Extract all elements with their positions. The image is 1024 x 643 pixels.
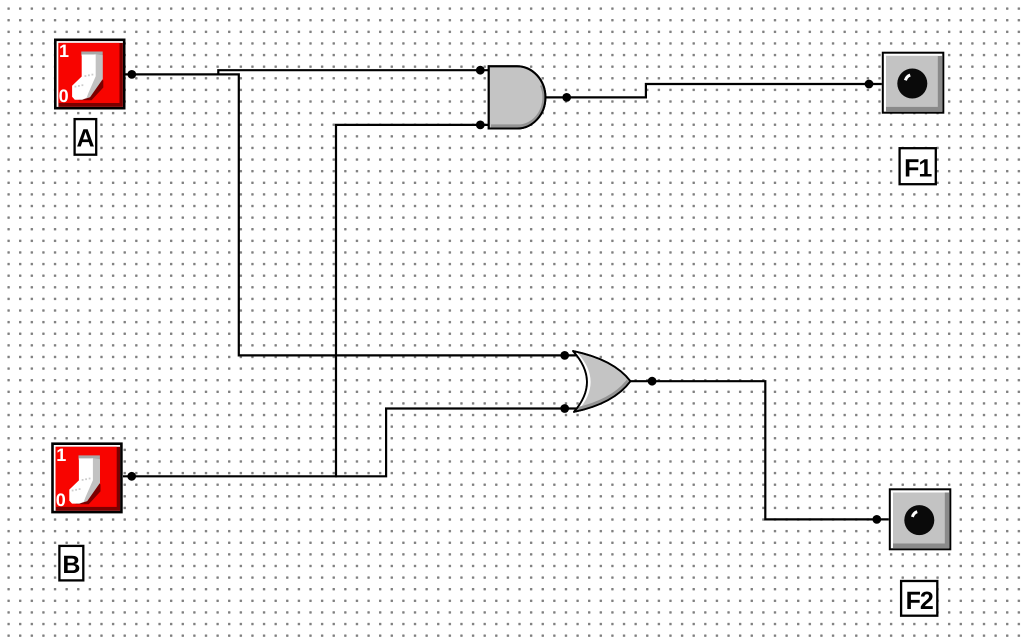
or-gate U2 [573,351,630,412]
wire A output net: A pin right, down to OR top input [124,74,579,355]
junction dot AND output [562,93,571,102]
wire B output net: B pin right, up to OR bottom input [123,409,579,477]
junction dot AND input 2 [476,121,485,130]
junction dot OR input 1 [560,351,569,360]
wire AND output to LED F1 [545,84,881,97]
junction dot OR output [648,377,657,386]
junction dot OR input 2 [560,404,569,413]
junction dot A pin [127,70,136,79]
label A [75,119,97,155]
switch B [51,442,123,513]
junction dot B pin [127,472,136,481]
led F1 [882,52,945,114]
led F2 [889,488,952,550]
wire branch B to AND bottom input [336,125,489,478]
junction dot F2 pin [872,515,881,524]
label B [59,546,83,581]
junction dot F1 pin [865,80,874,89]
junction dot AND input 1 [476,66,485,75]
wire OR output to LED F2 [630,381,888,519]
wire branch A to AND top input [218,70,488,74]
label F2 [901,581,937,616]
svg-text:F2: F2 [906,587,933,615]
switch A [54,39,126,110]
label F1 [900,148,936,184]
and-gate U1 [489,66,546,128]
svg-text:F1: F1 [904,154,932,182]
svg-text:A: A [76,125,94,153]
svg-text:B: B [62,551,80,579]
